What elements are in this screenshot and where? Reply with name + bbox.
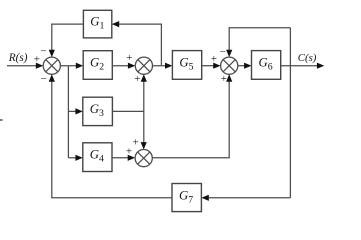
node label R(s) xyxy=(8,52,28,64)
block G4 xyxy=(83,143,112,172)
arrowhead into G3 xyxy=(75,108,82,114)
sign + at J4 left input xyxy=(126,145,132,157)
summing junction J1 xyxy=(43,57,60,74)
wire J3 to G6 xyxy=(238,65,249,67)
node branch after J1 down to G3 and G4 xyxy=(67,66,69,158)
block G5 xyxy=(172,51,201,80)
sign + at J2 left input xyxy=(126,52,132,64)
arrowhead into J3 top xyxy=(226,50,232,57)
arrowhead into J1 top xyxy=(49,50,55,57)
block G2 xyxy=(83,51,112,80)
wire branch into G3 xyxy=(68,110,79,112)
arrowhead into G2 xyxy=(76,63,83,69)
wire feedback branch up to G1 xyxy=(115,24,161,66)
block G6 xyxy=(252,51,281,80)
wire R(s) input to J1 xyxy=(7,65,40,67)
arrowhead into J4 left xyxy=(128,155,135,161)
stray mark at left edge xyxy=(0,119,3,121)
svg-text:C(s): C(s) xyxy=(298,52,317,64)
svg-text:+: + xyxy=(133,137,139,149)
arrowhead into G5 xyxy=(165,63,172,69)
arrowhead into J1 bottom xyxy=(49,74,55,81)
svg-text:+: + xyxy=(34,54,40,66)
wire J1 to G2 xyxy=(60,65,80,67)
sign + at J1 left input xyxy=(34,54,40,66)
sign + at J3 bottom input xyxy=(221,73,227,85)
wire G7 output to J1 bottom xyxy=(52,77,172,197)
arrowhead into J2 left xyxy=(128,63,135,69)
wire J4 output up to J3 bottom xyxy=(152,77,229,157)
svg-text:−: − xyxy=(40,73,46,85)
svg-text:−: − xyxy=(40,46,46,58)
svg-text:+: + xyxy=(134,73,140,85)
wire G4 to J4 xyxy=(112,157,132,159)
sign - at J1 top input xyxy=(40,46,46,58)
node label C(s) xyxy=(298,52,317,64)
wire J2 column to J4 with G3 tap xyxy=(143,77,145,146)
svg-text:−: − xyxy=(220,46,226,58)
arrowhead into G4 xyxy=(75,155,82,161)
arrowhead into J3 bottom xyxy=(226,74,232,81)
sign + at J4 top input xyxy=(133,137,139,149)
summing junction J2 xyxy=(135,57,152,74)
wire G6 to output C(s) xyxy=(281,65,322,67)
summing junction J3 xyxy=(221,57,238,74)
wire right branch vertical after G6 xyxy=(289,28,291,198)
wire top feedback to J3 xyxy=(229,28,290,54)
arrowhead into J3 left xyxy=(213,63,220,69)
arrowhead into J2 bottom xyxy=(141,74,147,81)
wire J2 to G5 xyxy=(153,65,170,67)
svg-text:R(s): R(s) xyxy=(8,52,28,64)
wire G3 output to column xyxy=(112,110,143,112)
wire branch into G4 xyxy=(68,157,79,159)
sign - at J3 top input xyxy=(220,46,226,58)
arrowhead into G7 right xyxy=(201,195,208,201)
block G1 xyxy=(83,10,111,38)
summing junction J4 xyxy=(135,150,152,167)
arrowhead into G6 xyxy=(244,63,251,69)
arrowhead into J1 left xyxy=(36,63,43,69)
block G7 xyxy=(172,184,201,212)
wire G2 to J2 xyxy=(112,65,132,67)
wire outer feedback into G7 xyxy=(205,197,291,199)
svg-text:+: + xyxy=(211,53,217,65)
arrowhead into J4 top xyxy=(141,142,147,149)
wire G5 to J3 xyxy=(202,65,218,67)
svg-text:+: + xyxy=(126,52,132,64)
sign + at J2 bottom input xyxy=(134,73,140,85)
sign + at J3 left input xyxy=(211,53,217,65)
arrowhead output xyxy=(317,63,324,69)
wire G1 output to J1 top xyxy=(52,24,84,54)
arrowhead into G1 right xyxy=(112,21,119,27)
sign - at J1 bottom input xyxy=(40,73,46,85)
svg-text:+: + xyxy=(126,145,132,157)
block G3 xyxy=(83,97,113,125)
svg-text:+: + xyxy=(221,73,227,85)
